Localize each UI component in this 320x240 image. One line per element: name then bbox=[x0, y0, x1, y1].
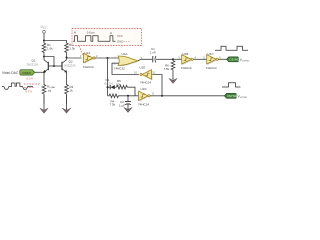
wire Vcc to rail junction bbox=[43, 33, 45, 40]
svg-text:VCC: VCC bbox=[117, 34, 123, 38]
wire U1B out to U1C in bbox=[193, 58, 206, 60]
ground (RLOAD) bbox=[40, 95, 48, 113]
svg-text:VCC: VCC bbox=[41, 25, 47, 30]
node RC junction bbox=[127, 95, 129, 97]
svg-text:7.5k: 7.5k bbox=[110, 103, 116, 107]
wire video input to Q1 emitter bbox=[36, 71, 45, 73]
svg-text:U2A: U2A bbox=[122, 52, 128, 56]
svg-text:0.7 V: 0.7 V bbox=[26, 89, 33, 93]
capacitor C2 bbox=[119, 96, 131, 108]
resistor R6 bbox=[164, 59, 175, 76]
red dashed callout box (sync waveform) bbox=[72, 29, 142, 46]
svg-text:0.3 V: 0.3 V bbox=[27, 76, 34, 80]
svg-text:Video DAC: Video DAC bbox=[2, 71, 19, 75]
svg-text:U1E: U1E bbox=[140, 66, 146, 70]
red callout leader line bbox=[79, 46, 82, 55]
svg-text:75: 75 bbox=[48, 89, 52, 93]
inverter U1C 74HC14 bbox=[203, 52, 221, 70]
svg-text:74HC32: 74HC32 bbox=[114, 66, 125, 70]
svg-text:74HC14: 74HC14 bbox=[140, 80, 151, 84]
svg-text:0 V: 0 V bbox=[36, 82, 40, 86]
wire U1A out to U2A input bbox=[95, 57, 118, 59]
svg-text:CSYNC: CSYNC bbox=[229, 57, 239, 61]
svg-text:2N2222A: 2N2222A bbox=[27, 62, 39, 66]
svg-text:0.6 µs: 0.6 µs bbox=[87, 31, 95, 35]
node U1A output junction bbox=[107, 57, 109, 59]
wire collector node to U1A input bbox=[67, 57, 82, 60]
OR gate U2A 74HC32 bbox=[114, 52, 143, 70]
wire emitter node down to RLOAD bbox=[43, 72, 45, 83]
inverter U1E 74HC14 (left-pointing) bbox=[134, 66, 156, 85]
svg-text:1.3k: 1.3k bbox=[69, 47, 75, 51]
node rail junction bbox=[43, 40, 45, 42]
inverter U1D 74HC14 bbox=[134, 87, 154, 106]
input video waveform bbox=[2, 83, 33, 89]
wire base rail bbox=[48, 65, 62, 67]
transistor Q1 bbox=[27, 57, 49, 73]
svg-text:7.5k: 7.5k bbox=[164, 67, 170, 71]
resistor R5 bbox=[116, 79, 135, 96]
net flag CSYNC output bbox=[227, 57, 250, 63]
svg-text:10k: 10k bbox=[116, 82, 121, 86]
wire U2A bottom input loop bbox=[112, 63, 139, 74]
capacitor C1 bbox=[150, 47, 173, 62]
wire U2A output to C1 bbox=[138, 59, 152, 60]
inverter U1B 74HC14 bbox=[178, 52, 196, 70]
svg-text:VIDEO: VIDEO bbox=[22, 71, 32, 75]
svg-text:H: H bbox=[110, 31, 112, 35]
net flag Video DAC input bbox=[2, 70, 36, 75]
resistor R4 bbox=[108, 94, 139, 107]
red dashed line blank level bbox=[24, 83, 35, 85]
svg-text:1.0k: 1.0k bbox=[47, 47, 53, 51]
wire junction up to U1E input bbox=[152, 75, 163, 96]
svg-text:2N2222A: 2N2222A bbox=[64, 63, 76, 67]
node Q2 collector / R2 bottom bbox=[66, 57, 68, 59]
node R1 bottom / Q1 collector bbox=[43, 56, 45, 58]
node delay branch top bbox=[107, 86, 109, 88]
resistor R1 bbox=[42, 41, 53, 57]
node Q1 emitter / video input bbox=[43, 71, 45, 73]
wire U1D out to VSYNC flag bbox=[150, 95, 226, 97]
ground (R6) bbox=[169, 76, 177, 84]
svg-text:GND: GND bbox=[117, 39, 123, 43]
red dashed line sync level bbox=[24, 87, 34, 89]
svg-text:U1D: U1D bbox=[141, 87, 148, 91]
svg-text:10: 10 bbox=[134, 71, 138, 75]
waveform vsync output bbox=[222, 83, 241, 87]
svg-text:74HC14: 74HC14 bbox=[181, 66, 192, 70]
svg-text:VSYNC: VSYNC bbox=[227, 94, 237, 98]
ground (C2) bbox=[124, 104, 132, 112]
net flag VSYNC output bbox=[224, 93, 247, 99]
ground (R3) bbox=[62, 95, 70, 113]
svg-text:74HC14: 74HC14 bbox=[138, 102, 149, 106]
svg-text:1 µF: 1 µF bbox=[119, 103, 125, 107]
wire U1C out to CSYNC flag bbox=[218, 58, 226, 60]
svg-text:74HC14: 74HC14 bbox=[83, 65, 94, 69]
wire junction down to delay branch bbox=[107, 58, 109, 96]
resistor R3 bbox=[65, 84, 74, 105]
svg-text:BAS16: BAS16 bbox=[105, 82, 114, 86]
wire node to U1B input bbox=[173, 58, 182, 60]
node U1D output junction bbox=[161, 95, 163, 97]
node C1 / R6 junction bbox=[172, 58, 174, 60]
resistor R2 bbox=[65, 42, 76, 58]
node base rail bbox=[53, 65, 55, 67]
resistor RLOAD bbox=[42, 84, 55, 105]
svg-text:1 nF: 1 nF bbox=[150, 51, 156, 55]
wire rail to R2 top bbox=[44, 41, 67, 43]
wire R1 node to Q2 base rail bbox=[44, 57, 54, 67]
power VCC symbol bbox=[41, 25, 47, 33]
svg-text:11: 11 bbox=[153, 71, 156, 75]
svg-text:1k: 1k bbox=[70, 89, 74, 93]
svg-text:H: H bbox=[74, 30, 76, 34]
transistor Q2 bbox=[62, 58, 76, 84]
svg-text:74HC14: 74HC14 bbox=[206, 66, 217, 70]
waveform csync output bbox=[215, 46, 248, 50]
diode D1 BAS16 bbox=[105, 78, 117, 89]
inverter U1A 74HC14 bbox=[80, 51, 98, 69]
